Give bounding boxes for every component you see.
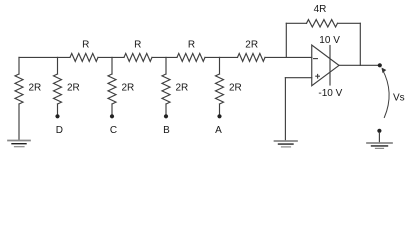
- node output junction dot: [378, 63, 382, 67]
- wire non-inverting input horizontal: [285, 77, 311, 79]
- wire branch A stem top: [219, 57, 221, 74]
- wire feedback left vertical: [285, 23, 287, 57]
- wire branch 1 stem top: [18, 57, 20, 74]
- wire branch D stem bottom: [57, 104, 59, 114]
- resistor 2R series to op-amp: [238, 53, 266, 61]
- wire branch 1 stem bottom: [18, 104, 20, 140]
- node C terminal dot: [110, 114, 114, 118]
- resistor 2R branch 1 (grounded): [15, 74, 23, 104]
- svg-text:R: R: [134, 40, 141, 51]
- node B terminal dot: [164, 114, 168, 118]
- svg-text:C: C: [110, 125, 117, 136]
- wire branch C stem top: [111, 57, 113, 74]
- wire branch B stem bottom: [165, 104, 167, 114]
- svg-text:2R: 2R: [122, 83, 135, 94]
- ground middle: [275, 141, 298, 147]
- wire top rail segment 2: [98, 56, 124, 58]
- resistor 2R branch B: [162, 74, 170, 104]
- resistor 2R branch A: [216, 74, 224, 104]
- svg-text:2R: 2R: [245, 40, 258, 51]
- resistor R3: [177, 53, 205, 61]
- wire feedback top right: [338, 22, 361, 24]
- op-amp inverting input minus sign: [314, 58, 318, 60]
- node D terminal dot: [55, 114, 59, 118]
- wire top rail segment 3: [152, 56, 177, 58]
- wire branch B stem top: [165, 57, 167, 74]
- op-amp power supply line: [329, 46, 331, 86]
- svg-text:2R: 2R: [67, 83, 80, 94]
- Vs arrowhead: [382, 68, 387, 74]
- wire top rail segment 4: [205, 56, 238, 58]
- wire top rail segment 1: [19, 56, 70, 58]
- ground right: [367, 143, 392, 148]
- wire feedback right vertical: [359, 23, 361, 65]
- svg-text:-10 V: -10 V: [318, 88, 342, 99]
- svg-text:B: B: [163, 125, 170, 136]
- resistor R1: [70, 53, 98, 61]
- resistor 4R feedback: [307, 20, 338, 28]
- wire branch A stem bottom: [219, 104, 221, 114]
- node A terminal dot: [217, 114, 221, 118]
- svg-text:D: D: [56, 125, 63, 136]
- svg-text:2R: 2R: [229, 83, 242, 94]
- svg-text:R: R: [82, 40, 89, 51]
- svg-text:Vs: Vs: [393, 93, 405, 104]
- wire feedback top left: [286, 22, 306, 24]
- wire to inverting input: [265, 56, 312, 58]
- wire non-inverting input down to ground: [284, 78, 286, 141]
- op-amp U1 triangle: [312, 45, 339, 86]
- resistor 2R branch C: [108, 74, 116, 104]
- wire branch D stem top: [57, 57, 59, 74]
- resistor 2R branch D: [54, 74, 62, 104]
- svg-text:A: A: [215, 125, 222, 136]
- svg-text:2R: 2R: [176, 83, 189, 94]
- ground left: [8, 141, 30, 147]
- svg-text:2R: 2R: [29, 83, 42, 94]
- node output reference dot: [377, 129, 381, 133]
- wire branch C stem bottom: [111, 104, 113, 114]
- svg-text:10 V: 10 V: [319, 35, 340, 46]
- svg-text:4R: 4R: [314, 4, 327, 15]
- svg-text:R: R: [188, 40, 195, 51]
- op-amp non-inverting input plus sign: [316, 74, 320, 78]
- wire reference node stem: [378, 133, 380, 143]
- wire op-amp output: [339, 64, 380, 66]
- Vs measurement arrow arc: [382, 69, 389, 117]
- resistor R2: [124, 53, 152, 61]
